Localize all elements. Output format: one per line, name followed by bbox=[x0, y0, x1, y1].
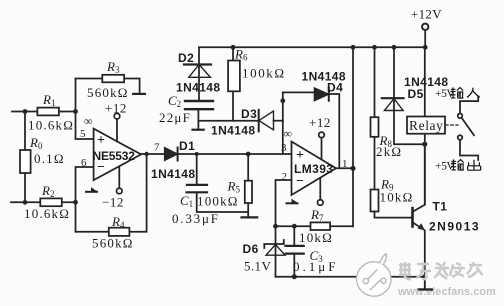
svg-text:C1: C1 bbox=[180, 193, 193, 209]
svg-text:∞: ∞ bbox=[84, 114, 93, 128]
node rail R6 dot bbox=[231, 45, 236, 50]
svg-text:−12: −12 bbox=[102, 195, 124, 210]
wire pin2 loop bbox=[276, 180, 292, 226]
svg-text:100kΩ: 100kΩ bbox=[197, 194, 239, 209]
relay K1 bbox=[407, 47, 458, 205]
node relay collector dot bbox=[422, 142, 427, 147]
svg-text:10.6kΩ: 10.6kΩ bbox=[28, 118, 74, 133]
svg-text:10kΩ: 10kΩ bbox=[299, 230, 333, 245]
svg-text:R5: R5 bbox=[227, 179, 241, 195]
node C1 tap dot bbox=[195, 152, 199, 156]
svg-text:C2: C2 bbox=[168, 93, 181, 109]
node C3 top dot bbox=[292, 224, 297, 229]
resistor R4 loop bbox=[76, 154, 147, 251]
node R5 tap dot bbox=[246, 152, 251, 157]
wire opamp output bbox=[141, 153, 165, 155]
wire Rc vertical bbox=[24, 112, 26, 203]
svg-text:+: + bbox=[296, 148, 304, 163]
label CJK shu (output) bbox=[451, 159, 464, 170]
diode D3 bbox=[211, 107, 283, 138]
svg-text:+12V: +12V bbox=[411, 7, 442, 22]
node rail pullup dot bbox=[351, 45, 356, 50]
resistor R2 bbox=[24, 183, 70, 221]
node C3 bottom dot bbox=[292, 274, 297, 279]
label CJK ru (input) bbox=[467, 88, 480, 98]
diode D1 bbox=[151, 139, 195, 181]
svg-text:3: 3 bbox=[281, 142, 287, 154]
resistor R5 bbox=[197, 154, 252, 216]
node rail D5 dot bbox=[392, 45, 397, 50]
svg-text:D6: D6 bbox=[243, 242, 259, 256]
diode D2 bbox=[176, 47, 220, 101]
wire input bottom bbox=[11, 201, 76, 203]
svg-text:560kΩ: 560kΩ bbox=[92, 236, 134, 251]
label +5V out bbox=[435, 161, 455, 173]
node R1 right dot bbox=[73, 109, 78, 114]
svg-text:1N4148: 1N4148 bbox=[176, 81, 220, 95]
svg-text:0.1Ω: 0.1Ω bbox=[34, 151, 65, 166]
svg-text:100kΩ: 100kΩ bbox=[242, 66, 286, 81]
svg-text:D4: D4 bbox=[327, 81, 343, 95]
svg-text:0.1μF: 0.1μF bbox=[293, 259, 338, 274]
svg-text:R4: R4 bbox=[111, 214, 125, 230]
svg-text:−: − bbox=[97, 160, 105, 175]
node rail R8 dot bbox=[372, 45, 377, 50]
svg-text:7: 7 bbox=[154, 142, 160, 154]
terminal -12 NE5532 bbox=[102, 166, 124, 209]
watermark CJK brand bbox=[399, 262, 483, 279]
svg-text:5.1V: 5.1V bbox=[244, 259, 271, 274]
svg-text:560kΩ: 560kΩ bbox=[87, 85, 129, 100]
wire output to rail and R7 bbox=[352, 47, 354, 226]
svg-text:R1: R1 bbox=[42, 92, 55, 108]
ground C2 bbox=[193, 129, 204, 131]
svg-text:10.6kΩ: 10.6kΩ bbox=[24, 206, 70, 221]
label CJK shu (input) bbox=[450, 87, 463, 98]
node D3 D4 dot bbox=[280, 98, 285, 103]
svg-text:5: 5 bbox=[80, 128, 86, 140]
wire C2 to D3 bbox=[198, 120, 258, 122]
wire top rail bbox=[199, 46, 425, 48]
wire pin5 branch bbox=[76, 79, 94, 140]
node input top dot bbox=[23, 109, 28, 114]
svg-text:1N4148: 1N4148 bbox=[151, 167, 195, 181]
svg-text:R6: R6 bbox=[234, 47, 248, 63]
diode D5 bbox=[382, 47, 449, 144]
svg-text:10kΩ: 10kΩ bbox=[380, 190, 414, 205]
label +5V in bbox=[435, 88, 455, 100]
ground emitter overlay bbox=[419, 288, 433, 290]
svg-text:D3: D3 bbox=[241, 107, 257, 121]
terminal +12V bbox=[411, 7, 442, 48]
watermark wire mask logo bbox=[357, 254, 391, 296]
zener D6 bbox=[243, 226, 286, 277]
node R4 feedback dot bbox=[144, 152, 148, 156]
transistor T1 2N9013 bbox=[413, 147, 481, 289]
diode D4 bbox=[283, 70, 346, 169]
svg-text:D2: D2 bbox=[178, 51, 194, 65]
svg-text:0.33μF: 0.33μF bbox=[172, 211, 220, 226]
switch S1 bbox=[458, 97, 479, 161]
svg-text:2kΩ: 2kΩ bbox=[376, 144, 402, 159]
resistor R1 bbox=[28, 92, 74, 133]
node rail relay dot bbox=[423, 45, 428, 50]
svg-text:∞: ∞ bbox=[284, 127, 293, 141]
wire input top bbox=[12, 111, 76, 113]
capacitor C1 bbox=[172, 154, 248, 226]
terminal +12 NE5532 bbox=[105, 101, 127, 142]
svg-text:2: 2 bbox=[282, 171, 288, 183]
wire comparator output bbox=[336, 167, 353, 169]
svg-text:2N9013: 2N9013 bbox=[429, 220, 480, 234]
capacitor C2 bbox=[159, 93, 213, 130]
resistor R6 bbox=[228, 47, 286, 121]
svg-text:−: − bbox=[296, 174, 304, 189]
label CJK chu (output) bbox=[468, 160, 481, 171]
svg-text:Relay: Relay bbox=[409, 118, 444, 133]
ground NE5532 bbox=[86, 187, 97, 192]
resistor R9 bbox=[371, 177, 414, 218]
wire pin6 branch bbox=[76, 167, 94, 232]
ground emitter bbox=[419, 288, 433, 290]
resistor R8 bbox=[371, 47, 403, 189]
node emitter bottom dot bbox=[422, 274, 427, 279]
svg-text:D5: D5 bbox=[408, 87, 424, 101]
svg-text:www.elecfans.com: www.elecfans.com bbox=[397, 286, 496, 298]
op-amp U1 NE5532 bbox=[80, 114, 160, 180]
svg-text:+: + bbox=[97, 133, 105, 148]
svg-text:R0: R0 bbox=[29, 135, 43, 151]
svg-text:22μF: 22μF bbox=[159, 110, 191, 125]
ground R5 C1 bbox=[242, 216, 258, 218]
svg-text:R7: R7 bbox=[310, 207, 324, 223]
node input bottom dot bbox=[23, 200, 28, 205]
svg-text:R2: R2 bbox=[41, 183, 54, 199]
svg-text:+12: +12 bbox=[309, 115, 331, 130]
svg-text:1N4148: 1N4148 bbox=[211, 124, 255, 138]
svg-text:R3: R3 bbox=[106, 59, 120, 75]
resistor R3 loop bbox=[76, 59, 145, 100]
resistor R7 bbox=[276, 207, 354, 245]
node output dot bbox=[350, 166, 355, 171]
terminal +12 LM393 bbox=[309, 115, 331, 159]
comparator U2 LM393 bbox=[281, 127, 348, 196]
wire emitter overlay bbox=[424, 282, 426, 289]
node pin2 D6 dot bbox=[273, 224, 278, 229]
wire bottom rail bbox=[276, 276, 425, 278]
svg-text:6: 6 bbox=[81, 157, 87, 169]
terminal Vminus LM393 bbox=[318, 178, 324, 206]
wire D3 node vertical bbox=[282, 92, 284, 154]
ground LM393 bbox=[287, 199, 298, 204]
wire signal line to comparator bbox=[178, 153, 292, 155]
node R2 right dot bbox=[73, 200, 78, 205]
resistor Rc bbox=[20, 135, 65, 173]
svg-text:T1: T1 bbox=[433, 200, 448, 214]
svg-text:D1: D1 bbox=[179, 139, 195, 153]
capacitor C3 bbox=[286, 226, 339, 277]
